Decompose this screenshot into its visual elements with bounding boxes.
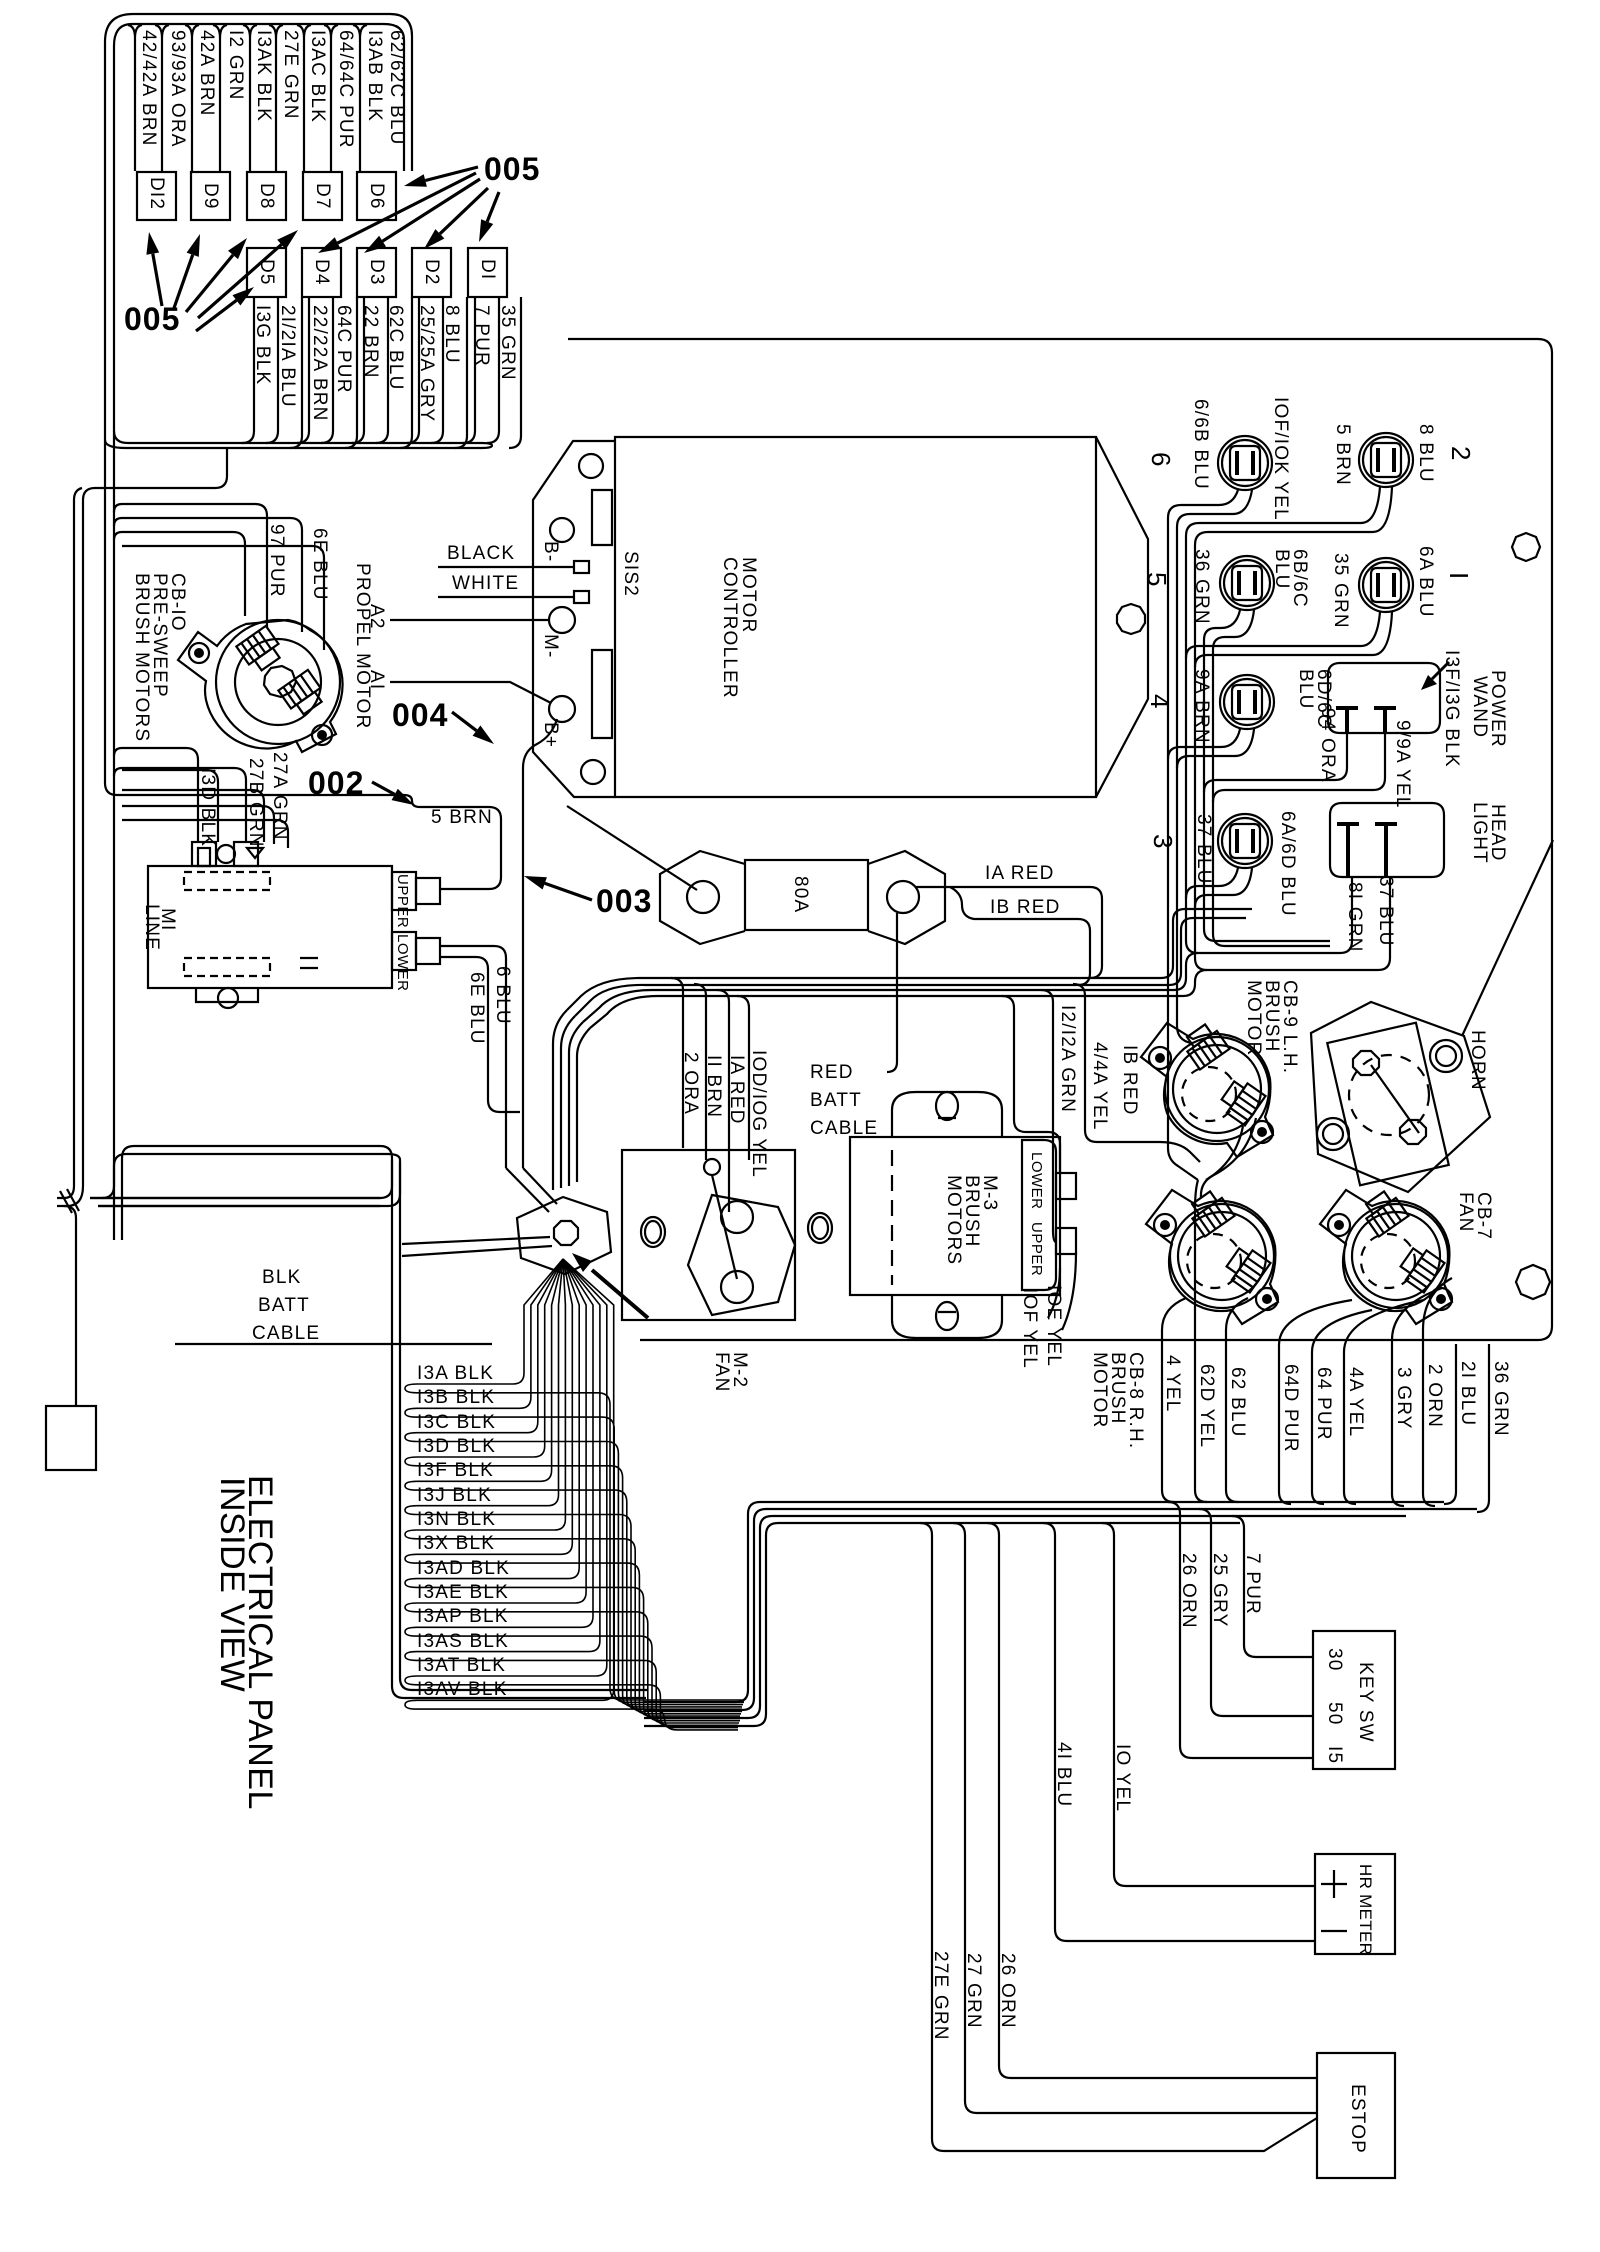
wire drop 62 BLU [1226,1298,1248,1502]
svg-text:D6: D6 [366,183,387,210]
M-3 LOWER UPPER strip [1022,1140,1056,1290]
svg-text:27 GRN: 27 GRN [963,1953,984,2029]
bracket bolt bottom [581,760,605,784]
wire 41 BLU to HR METER [1043,1523,1315,1941]
svg-text:6 BLU: 6 BLU [492,966,513,1025]
80A fuse left end plate [660,851,745,944]
svg-text:CONTROLLER: CONTROLLER [719,557,740,699]
terminal post lower [721,1271,753,1303]
terminal side oval left [641,1217,665,1247]
CB-10 breaker inner circle [235,639,321,725]
wire 5 BRN from left edge [105,783,501,889]
svg-text:7 PUR: 7 PUR [471,305,492,367]
svg-text:I: I [1444,572,1474,579]
round connector 36 GRN [1220,556,1274,610]
svg-text:7 PUR: 7 PUR [1242,1553,1263,1615]
wires 10E 10F from M-3 [1048,1252,1076,1330]
wire conn 6/6B right slot [1177,490,1252,1043]
005 arrow to D9 [174,255,193,308]
wire 13C BLK [405,1259,743,1705]
controller left mounting bracket [533,441,615,797]
terminal block assembly [622,1150,795,1320]
wire drop 62D YEL [1195,1180,1207,1502]
svg-text:3: 3 [1148,834,1178,848]
cable break marks [60,1189,79,1213]
005 arrow to D2 [440,188,488,234]
wire 10 YEL to HR METER [1102,1523,1315,1886]
wire 97 PUR track [114,504,267,628]
svg-text:CABLE: CABLE [252,1323,320,1344]
svg-text:LIGHT: LIGHT [1469,802,1490,864]
svg-text:INSIDE VIEW: INSIDE VIEW [213,1477,251,1692]
svg-text:8 BLU: 8 BLU [441,305,462,364]
wire 13AP BLK [405,1259,739,1723]
wire A1 to B+ [390,682,551,703]
svg-text:6A BLU: 6A BLU [1415,546,1436,618]
svg-text:I3X BLK: I3X BLK [417,1533,495,1554]
battery cable end terminal [46,1406,96,1470]
terminal B- [550,518,574,542]
hex stud post BLK [517,1197,611,1274]
svg-text:26 ORN: 26 ORN [997,1953,1018,2029]
lower wire lanes D2 [407,297,467,448]
terminal post upper [721,1201,753,1233]
power wand pin 2 [1374,708,1396,733]
terminal stud top [704,1159,720,1175]
wire drop 4 YEL [1162,1298,1186,1502]
M1 top circle [217,845,235,863]
M-3 terminal square lower [1056,1228,1076,1254]
wire from D5 area to left edge [83,448,227,1186]
wire 13AV BLK [405,1259,738,1730]
panel bottom edge left segment [175,1343,492,1345]
wire 26 ORN to ESTOP [987,1523,1317,2078]
terminal B+ [549,696,575,722]
svg-text:I3G BLK: I3G BLK [252,305,273,385]
svg-text:6A/6D BLU: 6A/6D BLU [1277,811,1298,917]
svg-text:MOTOR: MOTOR [1243,980,1264,1056]
controller flange bolt hex [1117,604,1145,634]
connector block inner outline [114,24,404,440]
svg-text:D2: D2 [421,259,442,286]
wire power wand drops [1204,733,1385,802]
svg-text:I3AE BLK: I3AE BLK [417,1582,509,1603]
svg-text:BATT: BATT [258,1295,310,1316]
hour meter plus [1321,1870,1347,1898]
wire 13J BLK [405,1259,742,1712]
horn dashed circle [1349,1055,1429,1135]
005 arrow to D4 lane [338,173,476,243]
svg-text:DI: DI [477,259,498,280]
wire 27 GRN to ESTOP [953,1523,1317,2113]
M-3 bolt bottom [936,1302,958,1330]
wire 27E GRN to ESTOP [920,1523,1317,2151]
connector D9 [191,172,230,220]
svg-text:25/25A GRY: 25/25A GRY [416,305,437,422]
svg-text:2 ORN: 2 ORN [1424,1364,1445,1428]
svg-text:BRUSH MOTORS: BRUSH MOTORS [131,573,152,742]
terminal strip inner lines [592,490,612,738]
svg-text:22/22A BRN: 22/22A BRN [309,305,330,422]
wire lane boundaries upper row [128,25,142,171]
M1 UPPER terminal [392,872,416,910]
svg-text:I3D BLK: I3D BLK [197,768,218,847]
wire 13X BLK [405,1259,740,1716]
horn bolt top right [1430,1040,1462,1072]
svg-text:004: 004 [392,697,448,733]
svg-text:2 ORA: 2 ORA [680,1052,701,1115]
svg-text:BLK: BLK [262,1267,302,1288]
M1 top terminal A [192,842,216,866]
round connector 37 BLU [1218,814,1272,868]
bottom bus line 3 [644,1516,1406,1718]
svg-text:PROPEL MOTOR: PROPEL MOTOR [352,563,373,729]
svg-text:IOD/IOG YEL: IOD/IOG YEL [748,1050,769,1178]
wire drop 2 ORN [1423,1278,1452,1506]
svg-text:I3D BLK: I3D BLK [417,1436,496,1457]
circuit breaker CB-7 [1320,1188,1452,1324]
hex post left radiating wires [402,1168,557,1256]
wire 27B GRN track [114,768,264,842]
svg-text:62/62C BLU: 62/62C BLU [386,30,407,146]
connector block J-harness outer outline [105,14,412,783]
connector D12 [137,172,176,220]
svg-text:36 GRN: 36 GRN [1490,1361,1511,1437]
lower wire lanes D5 [242,297,302,448]
wire 6E BLU down run [440,957,520,1112]
wire left edge outer [74,488,82,1186]
svg-text:62C BLU: 62C BLU [385,305,406,391]
wire 27A GRN track [122,806,288,848]
svg-text:25 GRY: 25 GRY [1209,1553,1230,1627]
svg-text:2I BLU: 2I BLU [1457,1361,1478,1426]
svg-text:I3N BLK: I3N BLK [417,1509,496,1530]
M1 LOWER terminal [392,932,416,970]
svg-text:RED: RED [810,1062,854,1083]
M-3 inner box [850,1137,1060,1295]
svg-text:37 BLU: 37 BLU [1375,876,1396,947]
svg-text:I3J BLK: I3J BLK [417,1485,492,1506]
svg-text:003: 003 [596,883,652,919]
svg-text:HORN: HORN [1467,1030,1488,1091]
svg-text:5 BRN: 5 BRN [431,807,493,828]
horn bolt bottom left [1317,1118,1349,1150]
svg-text:FAN: FAN [711,1352,732,1393]
CB-10 propel breaker mounting plate [178,620,343,752]
svg-text:64C PUR: 64C PUR [333,305,354,394]
CB-10 ear bolt bottom-right [312,725,332,745]
svg-text:FAN: FAN [1455,1192,1476,1233]
svg-text:6E BLU: 6E BLU [466,972,487,1045]
bottom bus line 2 [644,1509,1477,1710]
wire drop 1A RED [717,990,729,1212]
terminal M- [549,607,575,633]
svg-text:I3AV BLK: I3AV BLK [417,1679,508,1700]
panel mounting hole top right [1512,533,1540,561]
wire 13N BLK [405,1259,741,1714]
svg-text:IOE YEL: IOE YEL [1043,1285,1064,1367]
005 arrow to D7 [198,245,282,319]
svg-text:50: 50 [1324,1702,1345,1726]
svg-text:D8: D8 [256,183,277,210]
M-3 terminal square upper [1056,1173,1076,1199]
key switch box [1313,1631,1395,1769]
svg-text:I3AS BLK: I3AS BLK [417,1631,509,1652]
svg-text:UPPER: UPPER [1028,1222,1045,1276]
svg-text:IOF/IOK YEL: IOF/IOK YEL [1270,397,1291,521]
svg-text:D3: D3 [366,259,387,286]
round connector 6/6B [1218,436,1272,490]
wire diagonal to fuse [567,806,697,890]
round connector 9A BRN [1220,675,1274,729]
svg-text:I3AC BLK: I3AC BLK [307,30,328,123]
horn terminal circle 1 [1353,1051,1379,1075]
svg-text:4 YEL: 4 YEL [1162,1355,1183,1412]
M1 line contactor box [148,866,392,988]
round connector 8 BLU / 5 BRN [1359,433,1413,487]
bracket bolt top [579,454,603,478]
wire conn 36 GRN runs [1204,610,1330,941]
svg-text:KEY SW: KEY SW [1355,1662,1376,1743]
M1 top dashed bar [184,872,270,890]
svg-text:6: 6 [1146,452,1176,466]
002 arrow [372,782,395,794]
wire 6 BLU down run [440,946,506,1168]
svg-text:I5: I5 [1324,1746,1345,1764]
wire drop 4A YEL [1344,1300,1424,1504]
005 arrow to D5 [196,300,237,331]
80A fuse right end plate [868,851,945,944]
svg-text:I3AP BLK: I3AP BLK [417,1606,509,1627]
svg-text:I3A BLK: I3A BLK [417,1363,494,1384]
005 arrow to D6 [425,167,478,181]
wire 6E BLU track upper [114,518,324,650]
svg-text:BLU: BLU [1271,549,1292,590]
wire conn 35 GRN runs [1186,612,1392,667]
wire 13D BLK [405,1259,742,1707]
svg-text:MOTOR: MOTOR [1089,1352,1110,1428]
svg-text:27E GRN: 27E GRN [930,1951,951,2041]
svg-text:SIS2: SIS2 [620,551,641,597]
hex post fan bold arrow [592,1270,648,1318]
power wand connector [1328,663,1440,733]
bottom bus line 1 [644,1502,1444,1702]
power wand pin 1 [1336,708,1358,733]
CB-10 ear bolt top-left [189,643,209,663]
svg-text:002: 002 [308,765,364,801]
harness wires lower-left pair [90,1158,400,1206]
CB-10 center hole [264,666,296,697]
wire WHITE [438,596,574,598]
wire drop 10D/10G YEL [737,996,749,1160]
wire 4/4A YEL drop [1041,990,1056,1242]
circuit breaker CB-9 [1141,1021,1273,1157]
svg-text:IA RED: IA RED [726,1055,747,1125]
svg-text:3 GRY: 3 GRY [1393,1367,1414,1430]
svg-text:HR METER: HR METER [1356,1864,1375,1955]
wire 26 ORN to KEY SW 15 [1168,1502,1313,1758]
svg-text:D4: D4 [311,259,332,286]
svg-text:62 BLU: 62 BLU [1227,1367,1248,1438]
wire 13AD BLK [405,1259,740,1718]
M1 top terminal B [234,842,258,866]
head light connector [1330,803,1444,877]
head light pin 1 [1337,824,1359,877]
svg-text:2I/2IA BLU: 2I/2IA BLU [277,305,298,408]
connector block bottom bus wires [105,431,492,448]
panel top edge wire 35 GRN run [568,339,1552,1340]
svg-text:005: 005 [484,151,540,187]
svg-text:35 GRN: 35 GRN [1330,553,1351,629]
svg-text:MOTORS: MOTORS [943,1175,964,1265]
wire 1B RED from fuse [950,887,1090,985]
connector D2 [412,248,451,297]
svg-text:DI2: DI2 [146,177,167,210]
wire CB-9 to CB-8 [1201,1118,1256,1198]
battery cable to lug [64,1206,76,1406]
wire 13AT BLK [405,1259,738,1728]
wire 13AE BLK [405,1259,740,1721]
M1 bottom tab [196,988,258,1002]
svg-text:I3AD BLK: I3AD BLK [417,1558,510,1579]
svg-text:27B GRN: 27B GRN [245,758,266,848]
wire 13F BLK [405,1259,742,1709]
svg-text:I3C BLK: I3C BLK [417,1412,496,1433]
svg-text:I3AB BLK: I3AB BLK [364,30,385,122]
004 arrow [452,712,477,731]
wire 1A RED from fuse [915,887,1102,978]
wire drop 2 ORA [671,978,683,1148]
wire fuse to RED BATT CABLE [887,913,897,1072]
svg-text:6/6B BLU: 6/6B BLU [1190,399,1211,490]
svg-text:B+: B+ [540,722,561,748]
svg-text:I3AT BLK: I3AT BLK [417,1655,506,1676]
svg-text:I2/I2A GRN: I2/I2A GRN [1057,1005,1078,1113]
svg-text:6E BLU: 6E BLU [309,528,330,601]
005 arrow to D1 [487,192,499,222]
wire 12/12A GRN drop [1002,996,1060,1173]
svg-text:8I GRN: 8I GRN [1344,882,1365,953]
svg-text:2: 2 [1446,446,1476,460]
wire conn 8BLU to headlight 81 GRN [1186,487,1380,953]
svg-text:IOF YEL: IOF YEL [1019,1288,1040,1369]
svg-text:MOTOR: MOTOR [738,557,759,633]
svg-text:62D YEL: 62D YEL [1196,1364,1217,1448]
terminal strap line [712,1175,737,1279]
svg-text:WHITE: WHITE [452,573,519,594]
005 arrow to D3 lane [383,179,481,241]
svg-text:80A: 80A [790,876,811,913]
svg-text:005: 005 [124,301,180,337]
CB-10 terminal lug 1 [236,626,285,674]
wire 13B BLK [405,1259,744,1702]
13x BLK bundle left outline [392,1160,648,1698]
svg-text:LOWER: LOWER [394,934,411,992]
80A fuse body [745,860,868,930]
svg-text:27E GRN: 27E GRN [280,30,301,120]
lower wire lanes D1 [463,297,521,448]
svg-text:ESTOP: ESTOP [1347,2084,1368,2154]
svg-text:42/42A BRN: 42/42A BRN [138,30,159,147]
svg-text:WAND: WAND [1469,676,1490,738]
horn body rect [1327,1023,1449,1186]
M-3 housing [892,1092,1002,1338]
connector D5 [247,248,286,297]
svg-text:IA RED: IA RED [985,863,1055,884]
svg-text:D9: D9 [200,183,221,210]
connector D6 [357,172,396,220]
wire drop 11 BRN [694,984,706,1160]
horn mounting plate [1311,1002,1490,1192]
terminal block inner plate [688,1195,795,1315]
head light pin 2 [1375,824,1397,877]
hour meter box [1315,1854,1395,1954]
svg-text:LINE: LINE [141,904,162,951]
S2 tab [574,591,589,603]
wire conn 6/6B left slot [1168,490,1238,1180]
motor controller right chamfer flange [1096,437,1148,797]
svg-text:I3B BLK: I3B BLK [417,1387,495,1408]
CB-10 terminal lug 2 [278,670,327,718]
hour meter minus [1321,1930,1347,1932]
svg-text:4A YEL: 4A YEL [1345,1367,1366,1437]
round connector 35 GRN / 6A BLU [1359,558,1413,612]
wire 25 GRY to KEY SW 50 [1199,1509,1313,1716]
wire pair from block to harness left [102,440,114,1198]
svg-text:4I BLU: 4I BLU [1053,1742,1074,1807]
estop box [1317,2053,1395,2178]
svg-text:93/93A ORA: 93/93A ORA [167,30,188,148]
connector D3 [357,248,396,297]
svg-text:I3F BLK: I3F BLK [417,1460,494,1481]
wire drop 21 BLU [1444,1344,1456,1504]
circuit breaker CB-8 [1146,1188,1278,1324]
wire drop 64 PUR [1312,1310,1372,1504]
middle bus wires [567,978,1183,1028]
connector D1 [468,248,507,297]
wire 7 PUR to KEY SW 30 [1232,1516,1313,1657]
svg-text:8 BLU: 8 BLU [1415,424,1436,483]
wire drop 64D PUR [1279,1300,1352,1504]
svg-text:I3AK BLK: I3AK BLK [253,30,274,122]
005 arrow to D8 [186,255,233,312]
connector D7 [303,172,342,220]
wire diagonal panel to horn [1462,840,1553,1036]
svg-text:IB RED: IB RED [1119,1045,1140,1116]
terminal side oval right [808,1213,832,1243]
svg-text:CABLE: CABLE [810,1118,878,1139]
wire BLACK [438,566,574,568]
wire A2 to M- [390,619,549,621]
wire 13D BLK track [114,748,218,842]
horn wire line [1371,1065,1419,1133]
005 arrow to D12 [153,254,162,306]
003 arrow [545,883,592,900]
svg-text:64D PUR: 64D PUR [1280,1364,1301,1453]
wire drop 36 GRN [1477,1344,1489,1512]
svg-text:BATT: BATT [810,1090,862,1111]
svg-text:97 PUR: 97 PUR [266,524,287,598]
svg-text:35 GRN: 35 GRN [497,305,518,381]
svg-text:64/64C PUR: 64/64C PUR [335,30,356,149]
middle bus left diagonals to post [553,1010,590,1190]
harness wires upper-left pair [114,1146,400,1240]
svg-text:M-: M- [540,634,561,659]
wire conn 5BRN to headlight 37 BLU [1195,487,1392,970]
panel mounting hole bottom right [1516,1265,1550,1299]
svg-text:26 ORN: 26 ORN [1178,1553,1199,1629]
M1 bottom circle [218,988,238,1008]
